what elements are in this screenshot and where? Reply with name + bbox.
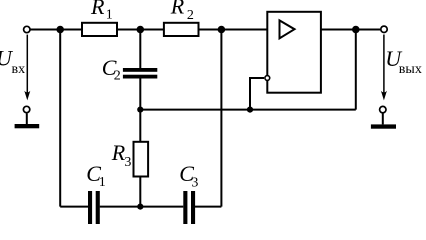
svg-text:R: R [90,0,105,19]
svg-text:R: R [170,0,185,19]
svg-text:3: 3 [191,175,198,190]
svg-text:вх: вх [12,62,26,77]
svg-text:2: 2 [187,8,194,23]
svg-text:вых: вых [399,62,422,77]
svg-text:1: 1 [99,175,106,190]
svg-text:1: 1 [106,8,113,23]
svg-text:2: 2 [114,69,121,84]
svg-text:3: 3 [124,155,131,170]
